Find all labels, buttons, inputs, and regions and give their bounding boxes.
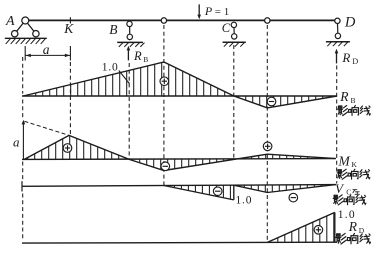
V_C value label 1.0 (236, 195, 253, 207)
svg-text:a: a (13, 134, 20, 149)
load P=1 arrow (197, 4, 201, 19)
label R_D (right side) (348, 219, 365, 235)
label yingxiangxian for R_B (338, 106, 371, 116)
reaction arrow R_D (335, 49, 339, 64)
plus sign in R_D positive region (314, 226, 323, 235)
dashed vertical line at K (69, 62, 71, 135)
label a on M_K axis (13, 134, 20, 149)
svg-text:C: C (222, 21, 231, 35)
dimension line a from A to K (25, 46, 70, 61)
label yingxiangxian for V_C (333, 195, 366, 205)
label R_B (right side) (339, 89, 355, 105)
label R_D at arrow (341, 50, 358, 66)
minus sign below V_C second negative region (289, 193, 298, 202)
dimension label a (43, 42, 50, 57)
label yingxiangxian for M_K (337, 169, 370, 179)
svg-text:R: R (339, 89, 349, 104)
pin support A (5, 17, 47, 44)
plus sign in M_K first positive region (63, 144, 72, 153)
V_C influence line curve C to D (234, 185, 336, 193)
dashed construction diagonal from axis top to K peak (24, 121, 68, 135)
dashed vertical line at hinge E (163, 25, 165, 185)
dashed vertical line at hinge F (266, 25, 268, 242)
minus sign in V_C first negative region (213, 187, 222, 196)
svg-text:B: B (351, 96, 356, 105)
svg-text:R: R (133, 49, 142, 63)
svg-text:A: A (5, 14, 15, 29)
svg-text:= 1: = 1 (215, 6, 229, 18)
label A (5, 14, 15, 29)
label B (109, 22, 117, 37)
svg-text:K: K (352, 160, 358, 169)
roller support B (117, 21, 144, 47)
dashed vertical line at C (233, 45, 235, 158)
dashed vertical line at D (336, 66, 338, 184)
hinge E (161, 18, 166, 23)
minus sign in R_B negative region (267, 97, 276, 106)
svg-text:D: D (344, 14, 356, 30)
svg-text:R: R (341, 50, 350, 65)
svg-text:M: M (338, 153, 351, 168)
svg-text:1.0: 1.0 (236, 195, 253, 207)
label M_K (right side) (338, 153, 358, 169)
M_K influence line hatching (28, 136, 308, 170)
R_D influence line hatching (278, 213, 334, 243)
R_D influence line baseline (22, 241, 336, 244)
reaction arrow R_B (127, 46, 131, 61)
R_B influence line hatching (36, 63, 323, 108)
V_C influence line curve E to C with ordinate at C (164, 185, 234, 200)
M_K influence line curve (24, 135, 336, 170)
tick at K on beam (69, 17, 71, 23)
plus sign above M_K second positive region (263, 142, 272, 151)
R_D influence line curve with ordinate at D (267, 212, 335, 242)
label P = 1 (204, 4, 229, 18)
label D (344, 14, 356, 30)
svg-text:K: K (63, 21, 74, 36)
minus sign in M_K negative region (161, 162, 170, 171)
beam (29, 19, 335, 21)
svg-text:B: B (143, 55, 148, 64)
R_B influence line baseline (22, 95, 337, 97)
R_D value label 1.0 (338, 209, 356, 221)
svg-text:B: B (109, 22, 117, 37)
roller support D (326, 18, 350, 46)
dashed vertical line at A (22, 57, 24, 241)
R_B value label 1.0 (102, 61, 119, 73)
R_B value 1.0 leader line (119, 71, 130, 84)
dashed vertical line at B (128, 63, 130, 159)
label R_B at arrow (133, 49, 148, 64)
label V_C-left (right side) (335, 181, 359, 197)
M_K vertical axis with arrow at A (22, 120, 26, 160)
label K (63, 21, 74, 36)
M_K influence line baseline (22, 158, 335, 161)
svg-text:P: P (204, 4, 213, 18)
V_C influence line hatching (C to D) (244, 185, 321, 192)
hinge F (265, 18, 270, 23)
label yingxiangxian for R_D (336, 233, 371, 244)
svg-text:1.0: 1.0 (102, 61, 119, 73)
V_C influence line hatching (E to C) (174, 185, 230, 199)
R_B influence line curve (23, 62, 337, 108)
V_C baseline with start tick (22, 181, 336, 191)
roller support C (223, 22, 246, 47)
label C (222, 21, 231, 35)
plus sign in R_B positive region (160, 77, 169, 86)
svg-text:D: D (352, 57, 358, 66)
svg-text:R: R (348, 219, 358, 234)
svg-text:a: a (43, 42, 50, 57)
